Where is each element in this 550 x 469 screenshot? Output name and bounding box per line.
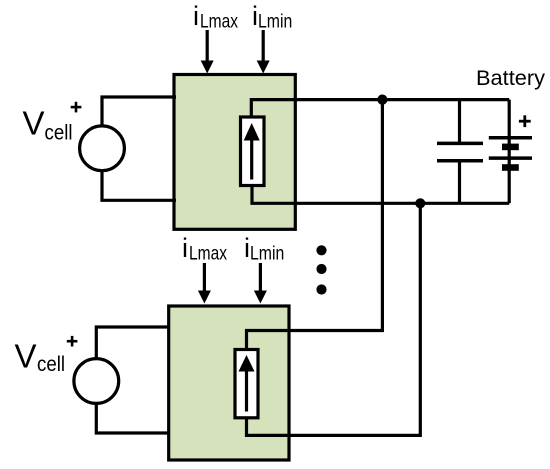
wire node B down to converter n output bottom [247,203,421,435]
svg-text:i: i [193,1,199,31]
label iLmin (converter n) [244,233,284,265]
svg-text:Lmax: Lmax [189,243,227,265]
controlled current source CSn [235,350,258,418]
capacitor C (dc-link filter) [437,100,483,204]
label Vcell (source n) [15,338,66,377]
svg-text:Lmax: Lmax [200,11,238,33]
svg-text:cell: cell [45,122,73,145]
svg-text:V: V [15,338,37,375]
svg-text:i: i [182,233,188,263]
battery B1 [489,100,532,204]
current arrow iLmin into converter n [254,263,267,304]
label iLmax (converter n) [182,233,227,265]
node A junction on positive bus [377,95,387,105]
svg-text:Lmin: Lmin [258,11,292,33]
label iLmax (converter 1) [193,1,238,33]
node B junction on negative bus [415,198,425,208]
converter block n (cell dc-dc converter) [169,306,289,460]
wire CS1 top to battery positive bus [251,100,509,117]
polarity + of Vcell source 1 [71,102,82,113]
label iLmin (converter 1) [252,1,292,33]
voltage source Vcell 1 [80,126,125,171]
polarity + of Vcell source n [67,336,78,347]
ellipsis dots (repeated cells) [316,245,326,294]
wire Vcell1 bottom to converter 1 input [102,170,176,200]
wire CS1 bottom to battery negative bus [252,185,509,203]
svg-text:Lmin: Lmin [250,243,284,265]
wire node A down to converter n output top [247,100,383,351]
svg-text:Battery: Battery [476,67,546,90]
current arrow iLmax into converter 1 [201,30,214,74]
wire Vcelln top to converter n input [96,327,169,359]
wire Vcell1 top to converter 1 input [102,97,176,127]
polarity + of battery [519,115,531,127]
converter block 1 (cell dc-dc converter) [174,75,295,230]
svg-text:cell: cell [37,353,65,376]
voltage source Vcell n [74,359,119,404]
svg-text:V: V [23,104,45,141]
controlled current source CS1 [241,117,265,186]
current arrow iLmin into converter 1 [257,30,270,74]
current arrow iLmax into converter n [198,263,211,304]
label Vcell (source 1) [23,104,73,144]
wire Vcelln bottom to converter n input [96,403,169,433]
